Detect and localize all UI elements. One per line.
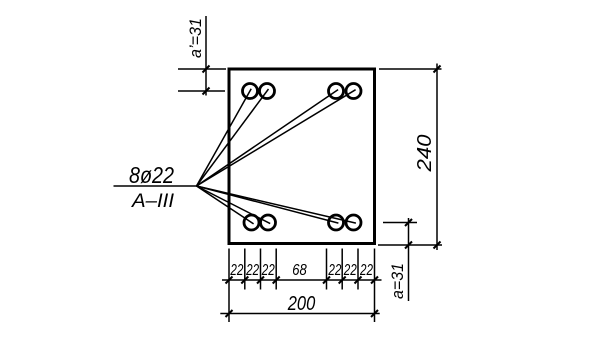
svg-text:68: 68 <box>292 262 307 279</box>
svg-text:22: 22 <box>245 262 259 279</box>
dimension 240 right <box>378 64 442 251</box>
tick 240 bottom <box>434 242 441 249</box>
callout label line <box>114 185 197 187</box>
rebar bar 6 <box>261 215 276 230</box>
tick a' bottom <box>203 88 210 95</box>
extension line top edge left <box>178 68 226 70</box>
extension line chain x342.2 <box>341 249 343 290</box>
wire leader to top-right bar 4 <box>197 90 356 186</box>
dimension a'=31 top-left <box>178 16 226 96</box>
wire leader to bottom-left bar 5 <box>197 186 254 224</box>
svg-text:22: 22 <box>328 262 342 279</box>
tick a' top <box>203 66 210 73</box>
svg-text:a’=31: a’=31 <box>186 18 205 58</box>
dimension line 200 <box>220 313 379 315</box>
wire leader to bottom-right bar 7 <box>197 186 339 223</box>
svg-text:22: 22 <box>230 262 244 279</box>
extension line chain x326.5 <box>326 249 328 290</box>
dimension line 240 <box>436 64 438 251</box>
wire leader to top-right bar 3 <box>197 90 339 186</box>
tick chain 6 <box>339 277 346 284</box>
extension line chain x244.8 <box>244 249 246 290</box>
tick chain 1 <box>226 277 233 284</box>
svg-text:200: 200 <box>287 293 315 315</box>
tick a bottom <box>405 242 412 249</box>
rebar bar 3 <box>329 84 344 99</box>
tick chain 2 <box>241 277 248 284</box>
wire leader to bottom-right bar 8 <box>197 186 356 223</box>
tick 240 top <box>434 66 441 73</box>
rebar bar 1 <box>243 84 258 99</box>
extension line bottom edge right <box>378 244 442 246</box>
rebar circles <box>243 84 362 231</box>
svg-text:240: 240 <box>414 135 436 173</box>
extension line top edge right <box>379 68 442 70</box>
extension line chain x229 <box>228 249 230 323</box>
tick chain 5 <box>323 277 330 284</box>
extension line top bar level left <box>178 90 225 92</box>
rebar bar 7 <box>329 215 344 230</box>
extension line chain x374.5 <box>374 249 376 323</box>
rebar bar 2 <box>260 84 275 99</box>
svg-text:a=31: a=31 <box>388 263 407 299</box>
tick a top <box>405 219 412 226</box>
extension line bottom bar level right <box>383 222 417 224</box>
section outline <box>229 69 375 244</box>
svg-text:22: 22 <box>261 262 275 279</box>
extension line chain x358 <box>357 249 359 290</box>
rebar bar 4 <box>346 84 361 99</box>
extension line chain x260.5 <box>260 249 262 290</box>
dimension line a=31 <box>408 218 410 301</box>
tick chain 3 <box>257 277 264 284</box>
tick 200 right <box>371 310 378 317</box>
svg-text:22: 22 <box>359 262 373 279</box>
tick chain 4 <box>273 277 280 284</box>
wire leader to bottom-left bar 6 <box>197 186 271 224</box>
svg-text:A–III: A–III <box>131 191 175 212</box>
rebar bar 5 <box>244 215 259 230</box>
wire leader to top-left bar 2 <box>197 89 269 186</box>
svg-text:22: 22 <box>343 262 357 279</box>
rebar bar 8 <box>346 215 361 230</box>
wire leader to top-left bar 1 <box>197 89 252 186</box>
leader fan lines to rebars <box>197 89 356 224</box>
tick chain 7 <box>355 277 362 284</box>
tick chain 8 <box>371 277 378 284</box>
extension line chain x276.2 <box>275 249 277 290</box>
tick 200 left <box>226 310 233 317</box>
bottom dimension chain <box>220 249 381 323</box>
svg-text:8ø22: 8ø22 <box>129 162 174 188</box>
dimension a=31 bottom-right <box>383 218 417 301</box>
dimension line a'=31 <box>205 16 207 96</box>
dimension line chain <box>222 279 382 281</box>
